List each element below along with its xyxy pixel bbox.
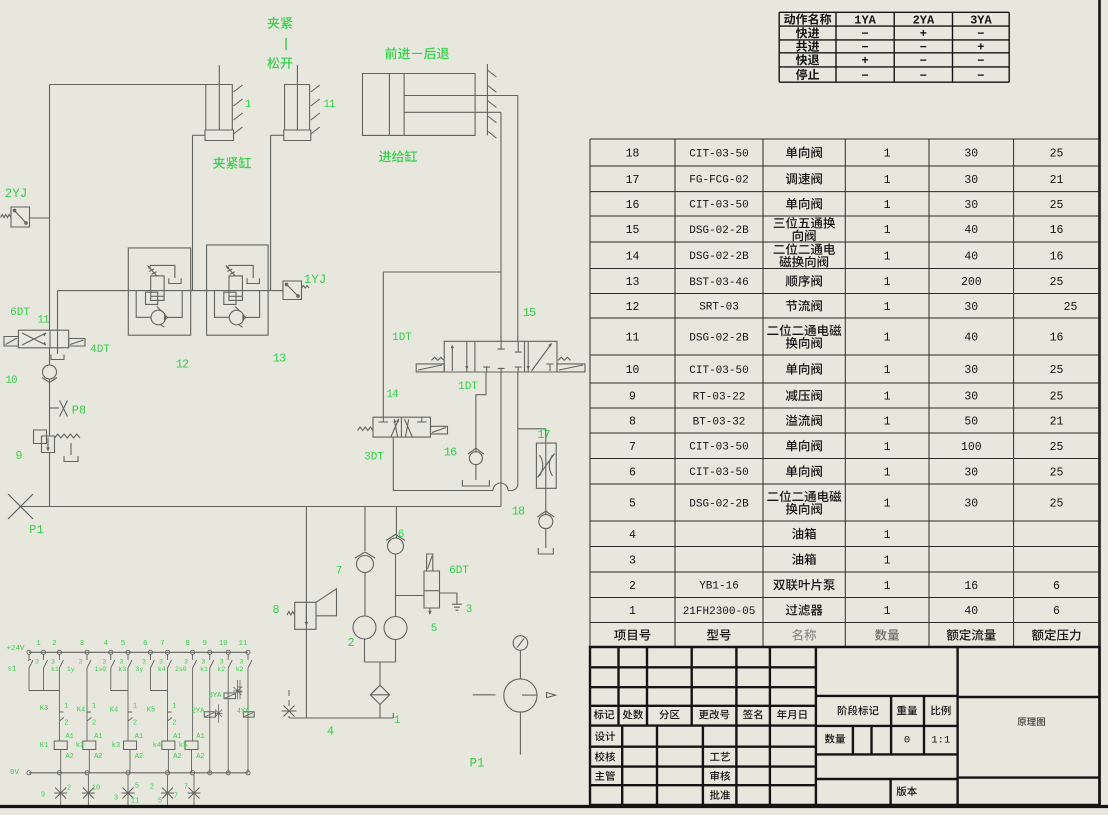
svg-text:4: 4: [327, 725, 334, 739]
svg-text:1: 1: [884, 466, 891, 479]
valve 15 left solenoid: [416, 364, 444, 372]
action table header 动作名称: [784, 13, 831, 24]
valve 11 right solenoid: [69, 339, 85, 347]
svg-text:A2: A2: [135, 753, 143, 761]
spring of 1YJ: [302, 286, 310, 289]
svg-text:A1: A1: [65, 733, 73, 741]
ladder upper contacts: [43, 654, 45, 660]
mount hatching right of cylinder 1: [234, 85, 243, 134]
svg-text:7: 7: [184, 784, 188, 792]
tank symbol 3 under check 16: [462, 480, 489, 486]
svg-text:40: 40: [964, 332, 978, 345]
wire: rail tap through valve 11: [57, 291, 59, 331]
svg-text:CIT-03-50: CIT-03-50: [689, 442, 748, 454]
svg-text:1: 1: [629, 605, 636, 618]
svg-text:1: 1: [884, 224, 891, 237]
svg-text:16: 16: [444, 446, 457, 460]
valve 15 right position flow paths: [532, 344, 552, 372]
svg-text:A1: A1: [94, 733, 102, 741]
svg-text:3: 3: [184, 658, 188, 665]
svg-text:10: 10: [92, 785, 100, 793]
svg-text:1: 1: [884, 580, 891, 593]
svg-text:2: 2: [629, 580, 636, 593]
svg-text:k2: k2: [217, 666, 225, 673]
svg-text:1: 1: [884, 301, 891, 314]
svg-text:25: 25: [1050, 276, 1064, 289]
svg-text:15: 15: [523, 306, 536, 320]
piston rod bottom line: [404, 111, 501, 113]
svg-text:A2: A2: [94, 753, 102, 761]
svg-text:16: 16: [1050, 224, 1064, 237]
svg-text:3: 3: [51, 658, 55, 665]
svg-text:YB1-16: YB1-16: [699, 581, 739, 593]
valve 17 throttle arc right: [549, 455, 552, 476]
svg-text:21FH2300-05: 21FH2300-05: [683, 606, 756, 618]
drawing frame right border: [1098, 0, 1101, 806]
title block grid: [590, 647, 1100, 805]
pipe: feed to valve 5: [396, 595, 425, 597]
svg-text:+24V: +24V: [6, 645, 25, 653]
svg-text:200: 200: [961, 276, 982, 289]
svg-text:40: 40: [964, 605, 978, 618]
tank symbol under check 18: [538, 548, 553, 554]
clamp cylinder 1 (夹紧缸): [206, 85, 233, 131]
pipe: valve 14 outlet right along y=490: [393, 437, 493, 490]
pump drive line down: [519, 712, 521, 755]
svg-text:2: 2: [133, 720, 137, 728]
svg-text:3: 3: [159, 658, 163, 665]
valve 5 drain to right: [440, 593, 457, 604]
action row 停止: [796, 69, 819, 80]
svg-text:9: 9: [203, 640, 208, 648]
svg-text:2: 2: [347, 636, 354, 650]
svg-text:3: 3: [466, 604, 473, 616]
svg-text:−: −: [861, 27, 868, 41]
pipe hop to valve17 branch: [508, 429, 518, 491]
drain below valve 11: [57, 348, 59, 354]
svg-text:CIT-03-50: CIT-03-50: [689, 467, 748, 479]
svg-text:5: 5: [629, 498, 636, 511]
svg-text:3: 3: [79, 658, 83, 665]
svg-text:P8: P8: [72, 404, 86, 418]
svg-text:1DT: 1DT: [392, 332, 412, 344]
ground star symbols below 0V rail: [60, 775, 62, 805]
svg-text:5: 5: [431, 623, 438, 635]
green label 进给缸: [379, 150, 417, 162]
wall line at rod end: [486, 64, 488, 135]
pipe: check 18 to tank: [545, 529, 547, 548]
wire: head line from clamp cylinder 1 to left rail: [50, 84, 206, 86]
svg-text:8: 8: [629, 416, 636, 429]
svg-text:9: 9: [41, 792, 45, 800]
svg-text:3: 3: [80, 640, 85, 648]
svg-text:1YA: 1YA: [854, 13, 876, 27]
svg-text:6: 6: [143, 640, 148, 648]
svg-text:DSG-02-2B: DSG-02-2B: [689, 225, 749, 237]
svg-text:7: 7: [160, 640, 165, 648]
svg-text:17: 17: [626, 174, 640, 187]
svg-text:6DT: 6DT: [449, 565, 469, 577]
svg-text:k3: k3: [118, 666, 126, 673]
svg-text:BT-03-32: BT-03-32: [693, 416, 746, 428]
svg-text:25: 25: [1050, 498, 1064, 511]
+24V rail: [29, 651, 248, 653]
wire: main supply line y=506: [21, 506, 502, 508]
svg-text:25: 25: [1050, 199, 1064, 212]
svg-text:25: 25: [1050, 391, 1064, 404]
svg-text:2YJ: 2YJ: [5, 187, 28, 201]
svg-text:25: 25: [1050, 466, 1064, 479]
flow arrow at pump: [547, 693, 556, 698]
pressure gauge: [513, 636, 528, 651]
wire: left vertical supply rail x=50: [49, 85, 51, 331]
svg-text:2: 2: [67, 785, 71, 793]
pipe hop over supply drop: [493, 483, 508, 491]
BOM footer header row: [614, 630, 650, 641]
crossed arrows in valve 11 left cell: [22, 333, 46, 345]
svg-text:K1: K1: [40, 742, 48, 750]
pump suction line: [379, 662, 381, 685]
pipe: down to valve 14 inlet: [382, 272, 384, 417]
pipe: branch to valve 17: [518, 428, 546, 430]
svg-text:3YA: 3YA: [970, 13, 992, 27]
svg-text:−: −: [861, 69, 868, 83]
svg-text:25: 25: [1050, 364, 1064, 377]
pipe: feed cyl bottom port to valve 15: [500, 112, 502, 341]
svg-text:FG-FCG-02: FG-FCG-02: [689, 175, 748, 187]
svg-text:100: 100: [961, 441, 982, 454]
pipe: check 6 to pump: [395, 554, 397, 617]
svg-text:11: 11: [323, 99, 336, 111]
valve 14 right cell arrows: [404, 419, 412, 437]
spring of valve 9: [55, 434, 81, 438]
green divider stroke: [285, 38, 287, 50]
svg-text:1: 1: [884, 174, 891, 187]
valve 15 left spring: [432, 357, 445, 360]
svg-text:2: 2: [172, 720, 176, 728]
svg-text:1: 1: [884, 441, 891, 454]
svg-text:13: 13: [626, 276, 640, 289]
svg-text:1: 1: [92, 703, 96, 711]
svg-text:16: 16: [1050, 332, 1064, 345]
svg-text:25: 25: [1050, 441, 1064, 454]
check valve 18: [539, 515, 553, 529]
svg-text:k2: k2: [76, 742, 84, 750]
svg-text:−: −: [977, 27, 984, 41]
svg-text:16: 16: [626, 199, 640, 212]
svg-text:3: 3: [102, 658, 106, 665]
svg-text:K4: K4: [77, 707, 85, 715]
piston rod top line: [404, 95, 518, 97]
svg-text:0: 0: [904, 734, 910, 746]
solenoid valve 14 (3DT) body: [373, 417, 431, 437]
drain tick marks valve 5: [452, 604, 462, 610]
svg-text:CIT-03-50: CIT-03-50: [689, 148, 748, 160]
rail terminals: [27, 650, 31, 654]
pressure switch 1YJ: [283, 281, 302, 300]
svg-text:−: −: [920, 41, 927, 55]
pipe: valve 9 down to main supply line: [49, 453, 51, 507]
relief valve 8: [295, 602, 316, 629]
check valve 10: [49, 348, 51, 365]
plugged port X at P1: [8, 494, 33, 519]
valve 17 throttle arc left: [540, 455, 543, 476]
pump/motor circle P1: [504, 679, 537, 712]
svg-text:k4: k4: [158, 666, 166, 673]
svg-text:7: 7: [629, 441, 636, 454]
tank 4 (油箱): [289, 717, 393, 719]
svg-text:DSG-02-2B: DSG-02-2B: [689, 251, 749, 263]
flow control unit 12 (调速阀+单向阀): [128, 248, 190, 335]
check valve 7: [357, 556, 374, 573]
valve 11 left solenoid: [4, 337, 18, 347]
svg-text:3: 3: [629, 554, 636, 567]
svg-text:1: 1: [884, 276, 891, 289]
svg-text:k2: k2: [236, 666, 244, 673]
svg-text:A2: A2: [65, 753, 73, 761]
svg-text:+: +: [920, 27, 927, 41]
solenoid valve 11 (6DT) body: [18, 330, 68, 348]
title block texts: [594, 710, 614, 720]
svg-text:2: 2: [92, 720, 96, 728]
valve 15 right solenoid: [557, 364, 585, 372]
valve 15 center position blocked ports: [498, 341, 505, 349]
svg-text:k3: k3: [112, 742, 120, 750]
svg-text:4: 4: [629, 529, 636, 542]
solenoid action table: [779, 12, 1009, 82]
svg-text:K5: K5: [147, 707, 155, 715]
svg-text:3: 3: [35, 658, 39, 665]
pipe: check 10 to reducing valve 9: [49, 379, 51, 436]
svg-text:3: 3: [220, 658, 224, 665]
svg-text:A2: A2: [196, 753, 204, 761]
svg-text:1: 1: [394, 715, 401, 727]
0V rail: [29, 772, 248, 774]
s1 master switch: [29, 654, 44, 690]
svg-text:40: 40: [964, 250, 978, 263]
svg-text:1: 1: [884, 605, 891, 618]
svg-text:16: 16: [964, 580, 978, 593]
svg-text:2: 2: [150, 784, 154, 792]
svg-text:1:1: 1:1: [931, 734, 950, 746]
branch wires: [44, 690, 168, 692]
clamp cylinder 11: [285, 85, 310, 131]
svg-text:1: 1: [884, 391, 891, 404]
svg-text:+: +: [861, 54, 868, 68]
svg-text:1DT: 1DT: [458, 381, 478, 393]
svg-text:11: 11: [626, 332, 640, 345]
svg-text:21: 21: [1050, 174, 1064, 187]
svg-text:1: 1: [172, 703, 176, 711]
svg-text:18: 18: [626, 148, 640, 161]
svg-text:P1: P1: [29, 523, 43, 537]
check valve 16: [469, 452, 482, 465]
svg-text:6: 6: [1053, 605, 1060, 618]
svg-text:12: 12: [626, 301, 640, 314]
svg-text:7: 7: [336, 565, 343, 577]
BOM parts table grid: [590, 139, 1100, 648]
svg-text:50: 50: [964, 416, 978, 429]
solenoid 4YA: [243, 712, 254, 717]
pipe: cylinder 1 cap port down to rail: [192, 135, 194, 290]
pipe: supply drop to check 6: [395, 507, 397, 539]
svg-text:−: −: [920, 69, 927, 83]
svg-text:4YA: 4YA: [237, 708, 250, 716]
svg-text:1: 1: [133, 703, 137, 711]
tank symbol under valve 9: [64, 456, 78, 462]
test port P8 throttle: [50, 407, 60, 409]
drain line of valve 9: [70, 443, 72, 455]
svg-text:9: 9: [15, 449, 22, 463]
lower rail terminals: [27, 771, 31, 775]
wire: clamp line horizontal rail: [58, 290, 284, 292]
svg-text:6: 6: [629, 466, 636, 479]
svg-text:2s0: 2s0: [175, 666, 187, 673]
breather on tank 4: [288, 690, 290, 706]
svg-text:A1: A1: [173, 733, 181, 741]
svg-text:8: 8: [272, 603, 279, 617]
svg-text:11: 11: [37, 314, 50, 326]
svg-text:10: 10: [219, 640, 229, 648]
svg-text:3YA: 3YA: [209, 692, 222, 700]
pressure switch 2YJ: [11, 207, 30, 227]
pressure reducing valve 9: [34, 430, 47, 444]
drawing frame bottom border: [0, 805, 1108, 808]
green label 松开: [267, 57, 292, 69]
svg-text:6: 6: [1053, 580, 1060, 593]
svg-text:DSG-02-2B: DSG-02-2B: [689, 332, 749, 344]
svg-text:6DT: 6DT: [10, 307, 30, 319]
valve 15 right spring: [558, 357, 571, 360]
svg-text:2YA: 2YA: [192, 708, 205, 716]
svg-text:15: 15: [626, 224, 640, 237]
svg-text:0V: 0V: [10, 769, 20, 777]
svg-text:CIT-03-50: CIT-03-50: [689, 200, 748, 212]
svg-text:3: 3: [142, 658, 146, 665]
svg-text:A1: A1: [135, 733, 143, 741]
svg-text:30: 30: [964, 199, 978, 212]
flow control unit 13: [207, 245, 269, 335]
svg-text:2: 2: [52, 640, 57, 648]
svg-text:k1: k1: [51, 666, 59, 673]
check valve 6: [388, 538, 404, 554]
pipe: supply drop to tank 4 via relief 8: [305, 507, 307, 719]
svg-text:3: 3: [120, 658, 124, 665]
valve 14 left cell arrows: [391, 419, 399, 437]
svg-text:DSG-02-2B: DSG-02-2B: [689, 498, 749, 510]
pipe: cylinder 11 cap port down to rail: [270, 135, 272, 290]
action row 快退: [796, 54, 819, 65]
svg-text:17: 17: [537, 428, 550, 442]
svg-text:+: +: [977, 41, 984, 55]
svg-text:2YA: 2YA: [913, 13, 935, 27]
svg-text:1s0: 1s0: [95, 666, 107, 673]
svg-text:1: 1: [884, 554, 891, 567]
pipe: check 16 to tank: [475, 465, 477, 480]
pipe: valve 15 right outlet down: [517, 372, 519, 429]
svg-text:5: 5: [121, 640, 126, 648]
pipe: supply drop to check 7: [364, 507, 366, 552]
svg-text:9: 9: [629, 391, 636, 404]
solenoid 3YA: [224, 693, 236, 699]
svg-text:30: 30: [964, 466, 978, 479]
svg-text:30: 30: [964, 364, 978, 377]
svg-text:30: 30: [964, 174, 978, 187]
directional valve 15 (1DT) body: [444, 341, 557, 372]
svg-text:25: 25: [1050, 148, 1064, 161]
svg-text:1: 1: [884, 148, 891, 161]
svg-text:13: 13: [273, 352, 286, 366]
relay coils K1..K5: [54, 741, 67, 750]
green label 夹紧: [268, 17, 293, 29]
pipe: valve 15 left outlet to check 16: [476, 372, 486, 452]
svg-text:−: −: [977, 54, 984, 68]
pilot loop of relief 8: [316, 589, 337, 616]
svg-text:3DT: 3DT: [364, 451, 384, 463]
wall hatching: [487, 70, 496, 138]
svg-text:10: 10: [626, 364, 640, 377]
action row 快进: [796, 27, 819, 38]
pipe: check 7 to pump: [364, 573, 366, 617]
svg-text:1: 1: [884, 199, 891, 212]
svg-text:10: 10: [5, 375, 17, 387]
svg-text:25: 25: [1064, 301, 1078, 314]
svg-text:1: 1: [884, 250, 891, 263]
svg-text:21: 21: [1050, 416, 1064, 429]
svg-text:30: 30: [964, 148, 978, 161]
svg-text:18: 18: [512, 505, 525, 519]
ladder column wires: [43, 676, 45, 691]
double vane pump 2 (YB1-16): [353, 616, 376, 639]
svg-text:3y: 3y: [136, 666, 144, 673]
svg-text:14: 14: [626, 250, 640, 263]
filter to tank: [379, 705, 381, 719]
spring of relief 8: [287, 612, 295, 616]
svg-text:P1: P1: [469, 756, 484, 770]
valve 14 solenoid box: [431, 426, 448, 434]
pipe: feed cyl top port to valve 15: [517, 96, 519, 342]
svg-text:11: 11: [238, 640, 248, 648]
svg-text:RT-03-22: RT-03-22: [693, 391, 746, 403]
svg-text:7: 7: [174, 793, 178, 801]
svg-text:−: −: [920, 54, 927, 68]
svg-text:1: 1: [884, 364, 891, 377]
seat of check valve 10: [42, 378, 57, 383]
solenoid 2YA: [204, 712, 215, 717]
svg-text:4: 4: [104, 640, 109, 648]
valve 15 left position arrows: [451, 346, 453, 371]
tank symbol under valve 11: [51, 355, 64, 360]
svg-text:3: 3: [240, 658, 244, 665]
pipe: valve 17 to check 18: [545, 488, 547, 514]
svg-text:s1: s1: [7, 666, 17, 674]
svg-text:30: 30: [964, 301, 978, 314]
feed cylinder (进给缸): [363, 74, 476, 136]
svg-text:1y: 1y: [67, 666, 75, 673]
svg-text:11: 11: [131, 798, 139, 806]
svg-text:30: 30: [964, 391, 978, 404]
svg-text:1: 1: [36, 640, 41, 648]
svg-text:1: 1: [884, 416, 891, 429]
action row 共进: [796, 41, 819, 52]
svg-text:6: 6: [398, 529, 405, 541]
svg-text:BST-03-46: BST-03-46: [689, 277, 748, 289]
green label 前进-后退: [385, 47, 449, 59]
svg-text:1: 1: [884, 498, 891, 511]
valve 14 spring: [358, 427, 374, 431]
filter 1 (过滤器): [370, 685, 389, 704]
svg-text:K3: K3: [40, 705, 48, 713]
